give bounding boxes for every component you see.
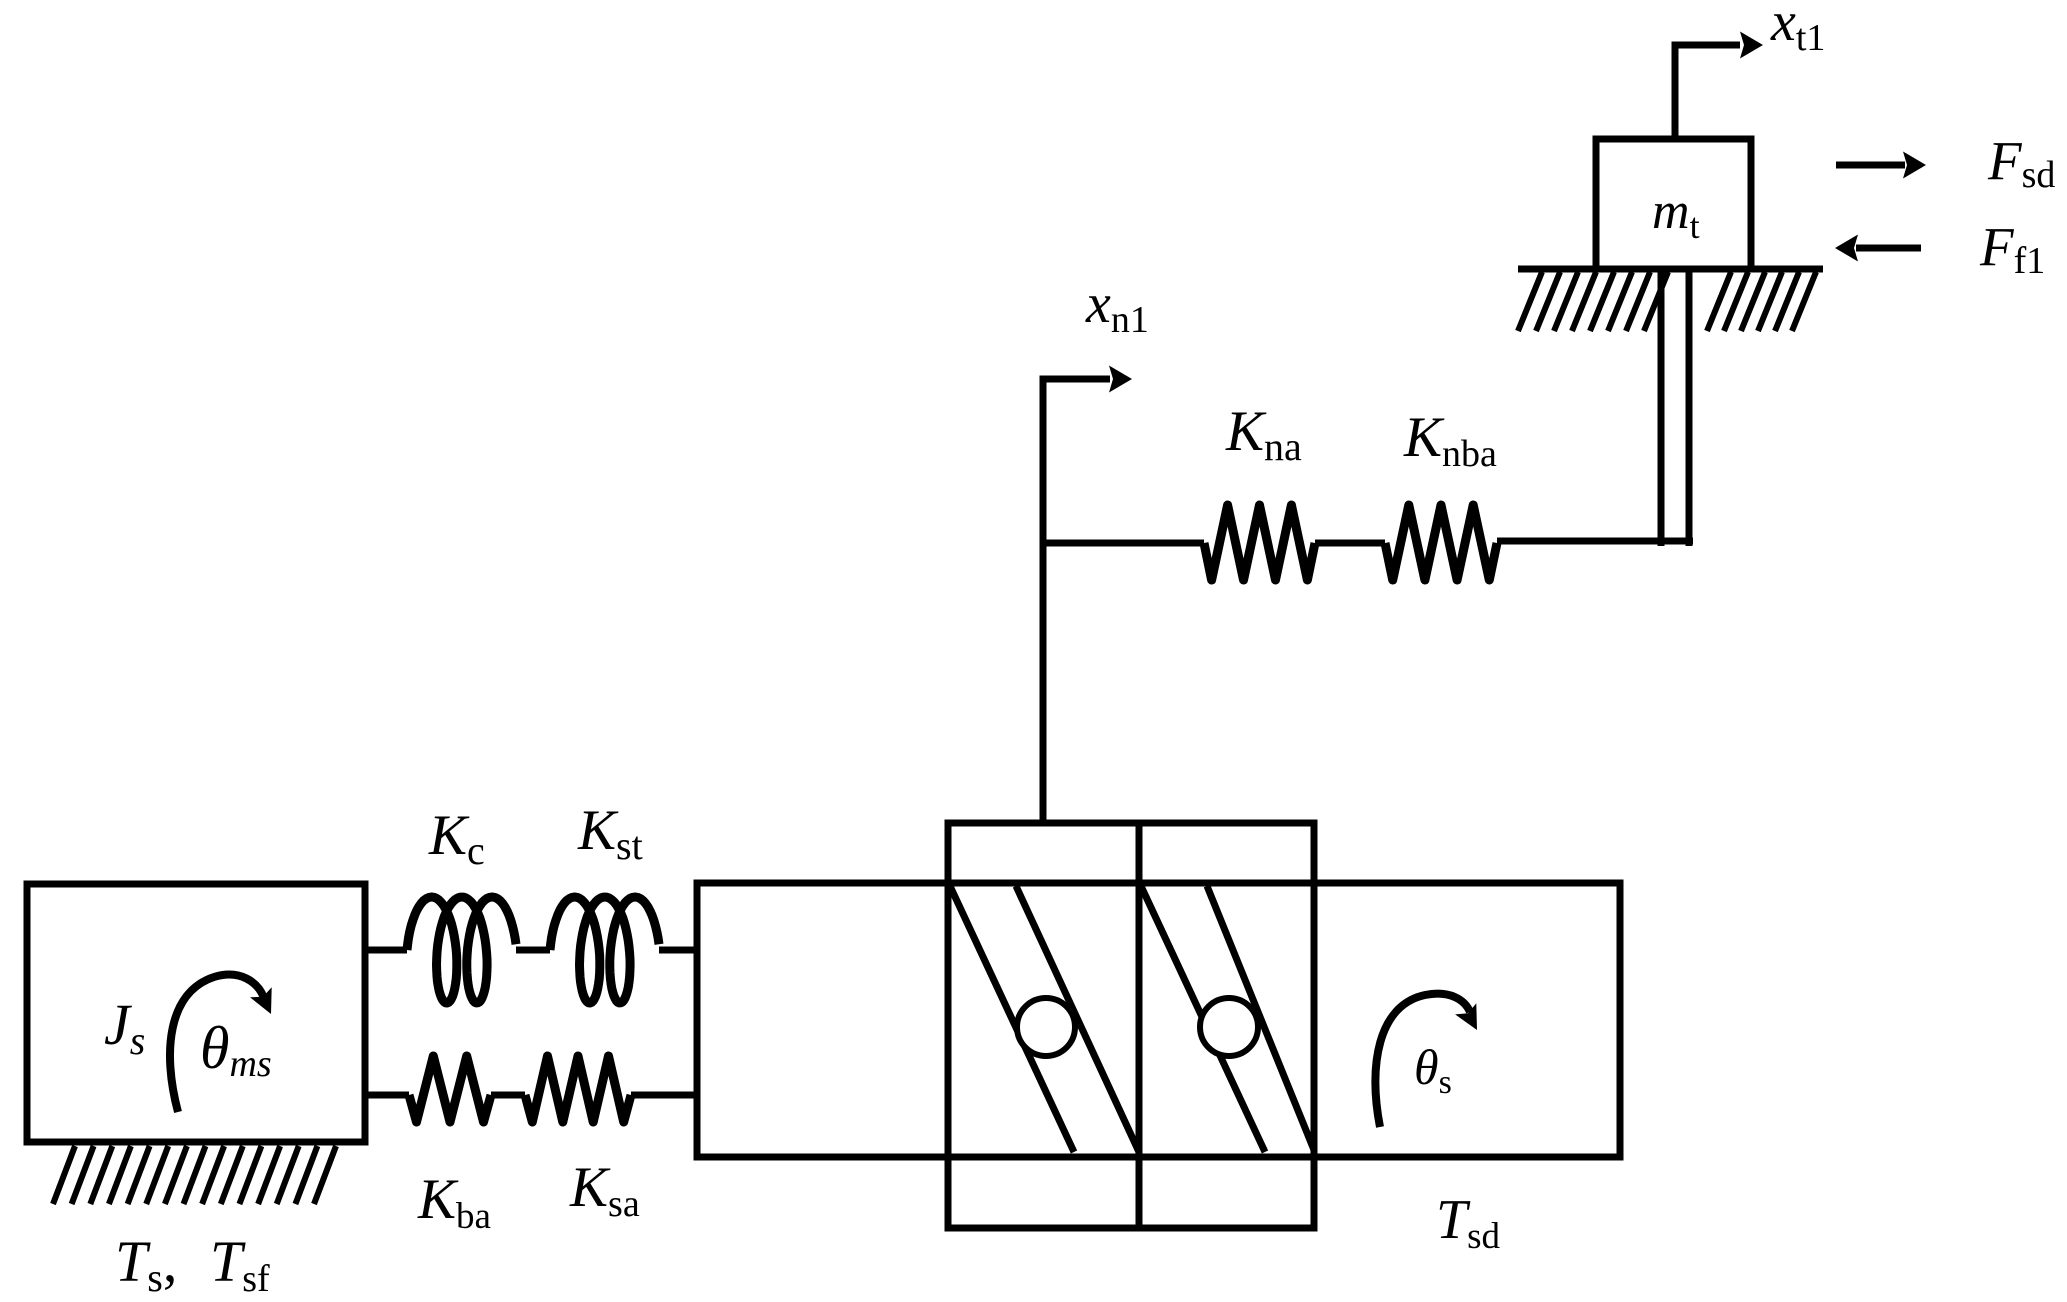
screw thread diagonals (left cell) xyxy=(950,886,1139,1152)
rotation arrow theta_ms xyxy=(170,975,264,1112)
node line x_n1 (vertical) xyxy=(1043,379,1110,826)
wire K_nba to rod xyxy=(1497,538,1693,545)
force arrow F_f1 xyxy=(1856,245,1921,252)
inertia block J_s xyxy=(27,884,365,1142)
spring K_sa xyxy=(525,1056,631,1122)
wire K_c to K_st xyxy=(516,947,550,954)
spring K_st (coil) xyxy=(550,897,659,1003)
mass m_t xyxy=(1596,139,1751,269)
ground hatching under J_s xyxy=(53,1146,336,1204)
wire J_s to K_ba xyxy=(365,1092,409,1099)
ball circle (left) xyxy=(1017,998,1075,1056)
ground hatching left of rod xyxy=(1518,272,1668,331)
svg-text:Ts,: Ts, xyxy=(115,1229,177,1297)
spring K_c (coil) xyxy=(407,897,516,1003)
spring K_ba xyxy=(409,1056,491,1122)
screw shaft xyxy=(697,883,1620,1157)
wire x_n1 to K_na xyxy=(1043,540,1204,547)
spring K_na xyxy=(1204,505,1315,580)
nut divider xyxy=(1136,823,1143,1228)
ground line under m_t xyxy=(1518,266,1823,273)
rod link (double vertical) from m_t to nut wire xyxy=(1661,272,1689,546)
spring K_nba xyxy=(1385,505,1497,580)
wire K_sa to shaft xyxy=(631,1092,697,1099)
displacement arrow x_t1 xyxy=(1675,45,1740,139)
wire K_ba to K_sa xyxy=(491,1092,525,1099)
ball screw nut (outer) xyxy=(948,823,1314,1228)
force arrow F_sd xyxy=(1836,162,1905,169)
ground hatching right of rod xyxy=(1707,272,1816,331)
arrowhead x_n1 xyxy=(1109,366,1132,393)
wire K_st to shaft xyxy=(659,947,697,954)
screw thread diagonals (right cell) xyxy=(1141,886,1314,1152)
wire K_na to K_nba xyxy=(1315,540,1385,547)
rotation arrow theta_s xyxy=(1375,994,1470,1127)
ball circle (right) xyxy=(1200,998,1258,1056)
wire J_s to K_c xyxy=(365,947,407,954)
